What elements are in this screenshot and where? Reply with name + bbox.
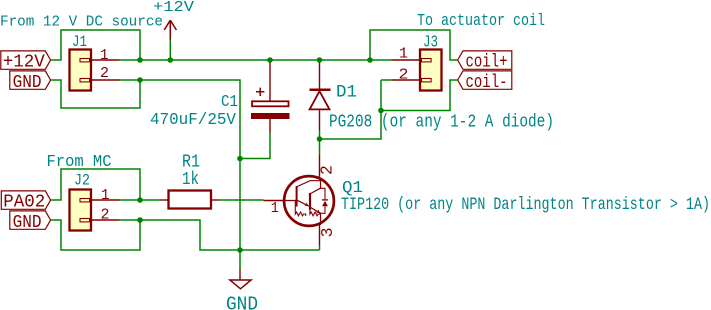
note: From 12 V DC source [0,14,163,31]
wire coil+ over-route to node E [370,30,458,60]
wire +12V power symbol stem [169,40,171,60]
connector J2 [70,190,92,231]
connector J1 [70,50,92,91]
svg-text:GND: GND [13,212,42,233]
power symbol +12V [153,0,194,40]
svg-text:PA02: PA02 [3,191,45,212]
pin 1 J2 [91,188,120,204]
wire Q1 emitter to GND rail [319,246,321,251]
resistor R1 [160,191,220,209]
wire D1 anode to collector and J3 pin2 branch [320,80,382,155]
label C1 [221,93,238,112]
label Q1 [342,179,363,198]
svg-text:2: 2 [101,208,110,224]
svg-text:coil-: coil- [466,72,508,93]
svg-text:2: 2 [399,68,409,84]
wire +12V label over-route to node A [51,30,140,60]
pin 1 J3 [392,47,421,63]
wire PA02 over-route to node I [51,169,140,200]
value TIP120 (or any NPN Darlington Transistor > 1A) [341,195,710,215]
node A [137,57,143,63]
hier label GND (J2) [10,211,51,233]
wire J1 pin2 to GND drop [120,80,241,250]
wire C1 bottom to GND drop [240,133,270,159]
svg-text:GND: GND [13,72,42,93]
wire J3 pin2 stub [381,79,392,81]
transistor Q1 [284,176,334,226]
svg-text:470uF/25V: 470uF/25V [150,111,237,130]
capacitor C1 [252,61,290,134]
node I [137,197,143,203]
connector J3 [420,50,442,91]
svg-text:1: 1 [271,201,279,217]
hier label PA02 [1,191,50,213]
node B [168,57,174,63]
pin 3 Q1 emitter [318,225,337,246]
node L [237,156,243,162]
pin 2 J1 [91,66,120,82]
hier label GND (J1) [10,71,51,93]
label J2 [74,172,90,190]
label J1 [72,33,87,51]
svg-text:1: 1 [399,47,408,63]
hier label coil- [458,71,512,93]
node G [378,108,384,114]
svg-text:1k: 1k [182,170,199,190]
svg-text:2: 2 [318,165,337,175]
wire J2 pin1 to R1 [120,199,161,201]
node E [367,57,373,63]
svg-text:2: 2 [100,66,109,82]
node D [317,57,323,63]
hier label +12V [1,51,51,73]
svg-text:1: 1 [101,188,110,204]
node J [137,217,143,223]
pin 2 Q1 collector [318,155,337,178]
diode D1 [310,61,331,131]
wire top rail +12V net [120,59,392,61]
node H [317,136,323,142]
svg-text:D1: D1 [336,83,357,103]
wire GND label under-route to node J [51,220,140,250]
hier label coil+ [458,51,512,73]
value PG208 (or any 1-2 A diode) [329,113,554,133]
node F [137,77,143,83]
note From MC [47,153,112,172]
svg-text:GND: GND [226,294,258,310]
pin 1 J1 [91,48,120,64]
value 1k [182,170,199,190]
pin 2 J3 [392,68,421,84]
svg-text:PG208 (or any 1-2 A diode): PG208 (or any 1-2 A diode) [329,113,554,133]
svg-text:+12V: +12V [153,0,194,16]
svg-text:TIP120 (or any NPN Darlington: TIP120 (or any NPN Darlington Transistor… [341,195,710,215]
svg-text:J3: J3 [423,33,438,52]
svg-text:J2: J2 [74,172,90,190]
pin 1 Q1 base [264,201,285,218]
note To actuator coil [417,12,545,31]
svg-text:coil+: coil+ [466,51,508,72]
label D1 [336,83,357,103]
wire GND label under-route to node F [51,80,140,108]
svg-text:+12V: +12V [3,51,45,72]
node K [237,247,243,253]
svg-text:1: 1 [100,48,109,64]
pin 2 J2 [91,208,120,224]
wire GND symbol stem [239,250,241,270]
ground [226,270,258,310]
svg-text:To actuator coil: To actuator coil [417,12,545,31]
wire R1 to Q1 base [220,199,264,201]
label R1 [182,153,200,173]
svg-text:3: 3 [318,227,337,237]
node C [267,57,273,63]
label J3 [423,33,438,52]
wire J2 pin2 to GND rail [120,220,320,250]
svg-text:J1: J1 [72,33,87,51]
value 470uF/25V [150,111,237,130]
svg-text:From 12 V DC source: From 12 V DC source [0,14,163,31]
wire coil- under-route to node G [381,80,458,111]
svg-text:C1: C1 [221,93,238,112]
